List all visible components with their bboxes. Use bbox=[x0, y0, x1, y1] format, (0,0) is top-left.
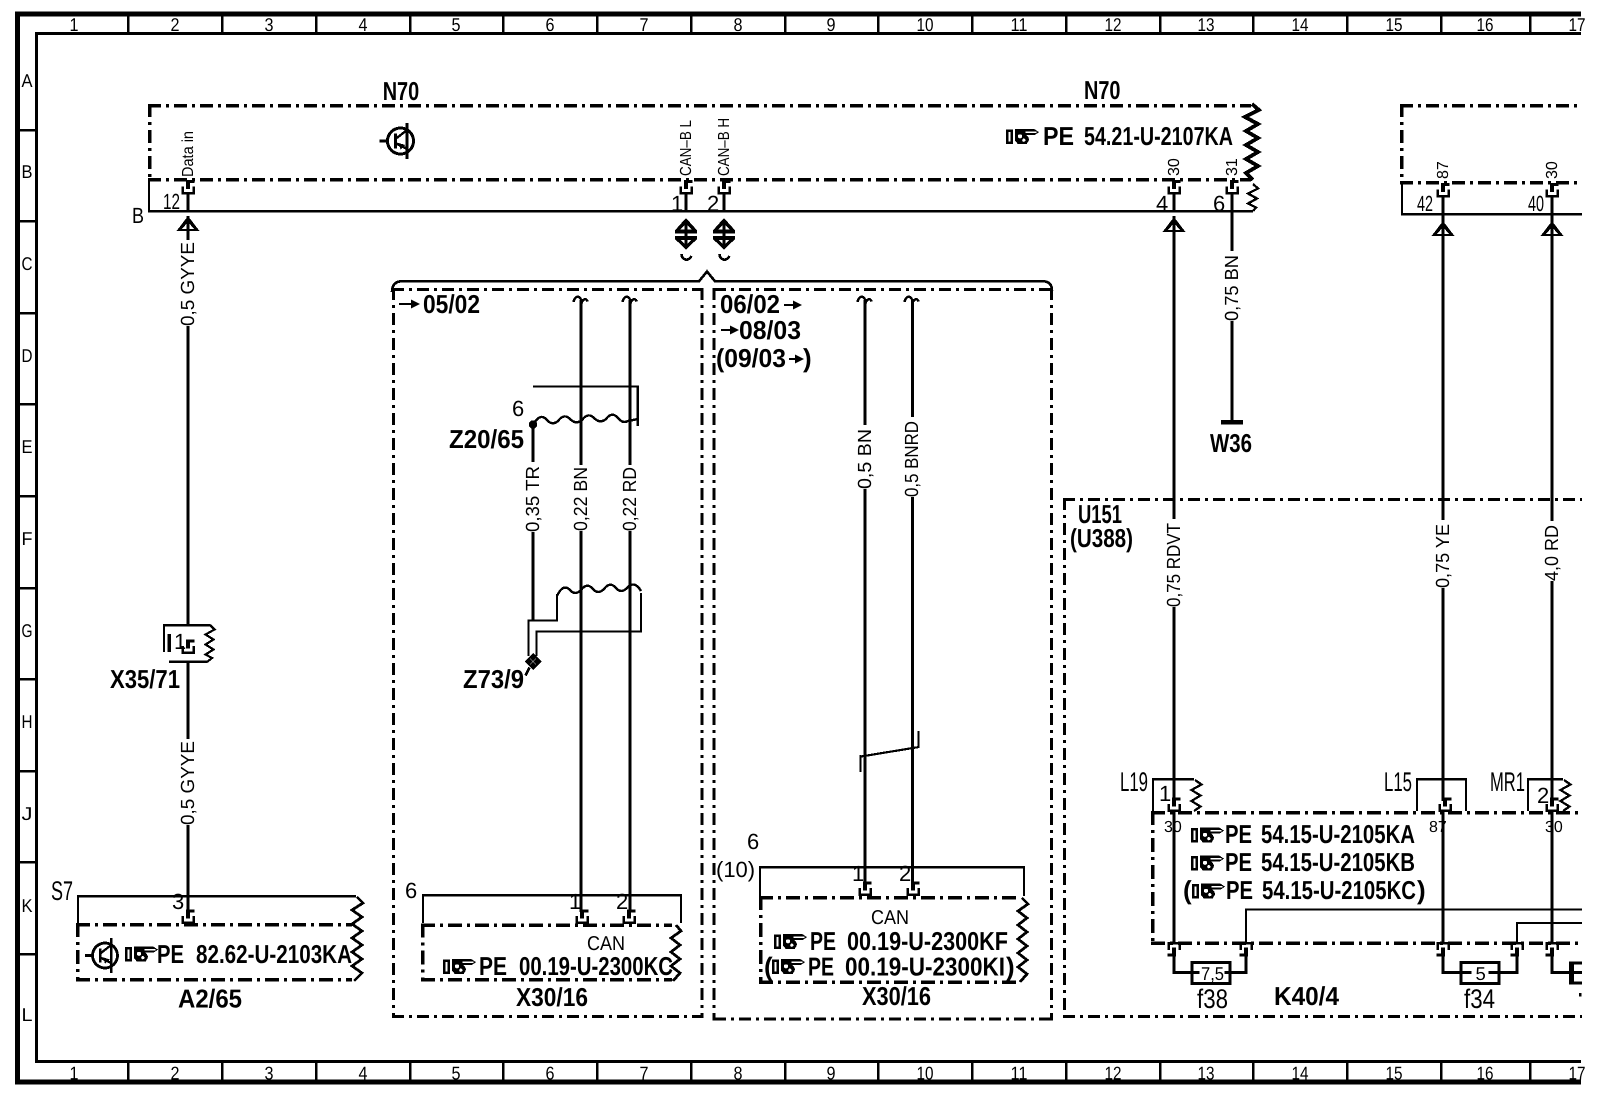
svg-text:8: 8 bbox=[734, 1063, 743, 1084]
svg-text:Data in: Data in bbox=[180, 131, 197, 177]
wire label 0,5 GYYE lower bbox=[178, 739, 199, 825]
svg-text:J: J bbox=[22, 803, 33, 824]
wire L15 through K40/4 bbox=[1442, 811, 1445, 944]
wire pin42 to L15 bbox=[1442, 215, 1445, 801]
svg-text:00.19-U-2300KI: 00.19-U-2300KI bbox=[845, 952, 1005, 982]
svg-text:G: G bbox=[22, 620, 33, 641]
svg-text:Z73/9: Z73/9 bbox=[463, 664, 524, 694]
svg-text:H: H bbox=[22, 711, 33, 732]
svg-text:6: 6 bbox=[512, 396, 524, 421]
fuse at right edge (cut) bbox=[1552, 953, 1582, 985]
control unit N70 box bbox=[148, 104, 1251, 181]
arrow on wire 40 bbox=[1541, 221, 1564, 236]
wire label 0,22 BN bbox=[571, 465, 592, 531]
wire X35/71 to A2/65 bbox=[187, 662, 190, 912]
Z20/65 junction dot bbox=[529, 420, 537, 428]
K40/4 bottom pin f34 right bbox=[1511, 943, 1523, 956]
svg-text:A: A bbox=[22, 70, 34, 91]
N70 right torn edge zigzag bbox=[1245, 104, 1259, 180]
wire label 0,5 GYYE upper bbox=[178, 240, 199, 326]
Z20/65 squiggle bbox=[533, 415, 638, 425]
ground W36 bbox=[1221, 420, 1243, 425]
svg-text:0,5 BNRD: 0,5 BNRD bbox=[902, 421, 923, 497]
svg-text:17: 17 bbox=[1569, 14, 1586, 35]
svg-text:40: 40 bbox=[1528, 191, 1544, 216]
A2/65 dash-dot box bbox=[76, 923, 352, 981]
svg-text:1: 1 bbox=[70, 14, 79, 35]
hand icon N70 bbox=[1006, 129, 1039, 144]
variant box 05/02 bbox=[392, 288, 702, 1018]
connector X35/71 bbox=[164, 625, 210, 662]
svg-text:E: E bbox=[22, 436, 33, 457]
feed line 30 inside K40/4 bbox=[1246, 910, 1582, 944]
A2/65 component outline bbox=[78, 896, 356, 923]
svg-text:6: 6 bbox=[405, 878, 417, 903]
svg-text:4: 4 bbox=[1156, 191, 1168, 216]
svg-text:2: 2 bbox=[899, 861, 911, 886]
svg-text:S7: S7 bbox=[51, 876, 73, 906]
svg-text:A2/65: A2/65 bbox=[178, 984, 242, 1014]
svg-text:82.62-U-2103KA: 82.62-U-2103KA bbox=[196, 939, 352, 969]
svg-text:N70: N70 bbox=[383, 76, 420, 106]
bus line B bbox=[148, 210, 1253, 213]
svg-text:K40/4: K40/4 bbox=[1274, 981, 1339, 1011]
05/02 arrow label bbox=[399, 303, 412, 305]
wire BNRD in 06/02 bbox=[905, 297, 919, 304]
left ruler column bbox=[20, 130, 36, 954]
svg-text:54.21-U-2107KA: 54.21-U-2107KA bbox=[1084, 121, 1233, 151]
right control unit box (cut) bbox=[1400, 104, 1582, 184]
svg-text:12: 12 bbox=[1105, 1063, 1122, 1084]
svg-text:7: 7 bbox=[640, 1063, 649, 1084]
svg-text:PE: PE bbox=[1043, 121, 1074, 151]
svg-text:9: 9 bbox=[827, 1063, 836, 1084]
svg-text:3: 3 bbox=[265, 1063, 274, 1084]
svg-text:4,0 RD: 4,0 RD bbox=[1542, 525, 1563, 581]
L15 pin label 87 bbox=[1427, 819, 1447, 836]
svg-text:0,35 TR: 0,35 TR bbox=[523, 466, 544, 532]
svg-text:14: 14 bbox=[1292, 1063, 1309, 1084]
svg-text:0,5 GYYE: 0,5 GYYE bbox=[178, 242, 199, 326]
svg-text:30: 30 bbox=[1545, 819, 1563, 836]
twisted pair marker bbox=[861, 731, 920, 772]
svg-text:1: 1 bbox=[569, 889, 581, 914]
L19 pin label 30 bbox=[1162, 819, 1182, 836]
arrow on wire 42 bbox=[1432, 221, 1455, 236]
svg-text:3: 3 bbox=[265, 14, 274, 35]
pin 42 of right box bbox=[1438, 183, 1450, 196]
svg-text:X30/16: X30/16 bbox=[862, 981, 931, 1011]
wire RD in 05/02 bbox=[623, 297, 637, 304]
svg-text:(09/03: (09/03 bbox=[716, 343, 786, 373]
X30/16 right connector outline bbox=[760, 867, 1024, 896]
feed line 2 inside K40/4 bbox=[1517, 923, 1582, 943]
svg-text:): ) bbox=[803, 343, 812, 373]
svg-text:1: 1 bbox=[174, 629, 186, 654]
fuse f34 bbox=[1443, 953, 1517, 984]
svg-text:3: 3 bbox=[172, 889, 184, 914]
svg-text:PE: PE bbox=[1225, 847, 1252, 877]
svg-text:B: B bbox=[132, 203, 144, 228]
hand icon X30/16 right row1 bbox=[774, 934, 807, 949]
08/03 arrow label bbox=[721, 329, 731, 331]
svg-text:5: 5 bbox=[452, 14, 461, 35]
svg-text:42: 42 bbox=[1417, 191, 1433, 216]
A2/65 torn right edge bbox=[352, 897, 363, 981]
wire BN in 05/02 bbox=[574, 297, 588, 304]
svg-text:L15: L15 bbox=[1384, 767, 1412, 797]
wire label 0,5 BNRD bbox=[902, 417, 923, 497]
Z20/65 resistor bracket bbox=[533, 387, 638, 427]
svg-text:12: 12 bbox=[163, 189, 180, 214]
svg-text:6: 6 bbox=[546, 1063, 555, 1084]
svg-text:08/03: 08/03 bbox=[739, 315, 801, 345]
wire label 0,75 YE bbox=[1433, 520, 1454, 588]
pin 1 of N70 bbox=[681, 180, 693, 193]
fuse box K40/4 dash-dot bbox=[1151, 811, 1582, 945]
svg-text:(10): (10) bbox=[716, 857, 755, 882]
svg-text:14: 14 bbox=[1292, 14, 1309, 35]
svg-text:16: 16 bbox=[1477, 14, 1494, 35]
X30/16 left dash-dot box bbox=[421, 924, 672, 982]
svg-text:2: 2 bbox=[616, 889, 628, 914]
svg-text:05/02: 05/02 bbox=[423, 289, 480, 319]
svg-text:54.15-U-2105KB: 54.15-U-2105KB bbox=[1261, 847, 1415, 877]
svg-text:L19: L19 bbox=[1120, 767, 1148, 797]
svg-text:(: ( bbox=[1183, 875, 1192, 905]
svg-text:): ) bbox=[1006, 952, 1015, 982]
pin 40 of right box bbox=[1547, 183, 1559, 196]
svg-text:9: 9 bbox=[827, 14, 836, 35]
svg-text:C: C bbox=[22, 253, 33, 274]
svg-text:Z20/65: Z20/65 bbox=[449, 424, 524, 454]
svg-text:7,5: 7,5 bbox=[1201, 963, 1224, 984]
K40/4 bottom pin f34 left bbox=[1437, 943, 1449, 956]
X30/16 right torn edge bbox=[1018, 898, 1028, 982]
svg-text:0,22 RD: 0,22 RD bbox=[620, 467, 641, 531]
svg-text:2: 2 bbox=[171, 1063, 180, 1084]
svg-text:00.19-U-2300KC: 00.19-U-2300KC bbox=[519, 951, 673, 981]
svg-text:6: 6 bbox=[546, 14, 555, 35]
svg-text:12: 12 bbox=[1105, 14, 1122, 35]
Z73/9 splice diamond bbox=[525, 653, 542, 676]
arrow on wire from pin 4 bbox=[1163, 217, 1186, 232]
svg-text:31: 31 bbox=[1224, 158, 1241, 176]
CAN-B L double arrow bbox=[675, 218, 697, 260]
svg-text:1: 1 bbox=[852, 861, 864, 886]
right bus left stub bbox=[1401, 184, 1403, 215]
wire label 0,22 RD bbox=[620, 465, 641, 531]
svg-text:K: K bbox=[22, 895, 34, 916]
svg-text:6: 6 bbox=[747, 829, 759, 854]
bus left stub bbox=[148, 181, 150, 212]
wire TR down from Z20/65 bbox=[532, 424, 535, 621]
svg-text:1: 1 bbox=[70, 1063, 79, 1084]
svg-text:1: 1 bbox=[1159, 781, 1171, 806]
svg-text:87: 87 bbox=[1435, 161, 1452, 179]
svg-text:MR1: MR1 bbox=[1490, 767, 1525, 797]
svg-text:30: 30 bbox=[1166, 158, 1183, 176]
svg-text:2: 2 bbox=[171, 14, 180, 35]
bottom ruler row bbox=[128, 1062, 1530, 1080]
svg-text:13: 13 bbox=[1198, 1063, 1215, 1084]
K40/4 bottom pin fuse3 bbox=[1546, 943, 1558, 956]
svg-text:15: 15 bbox=[1386, 14, 1403, 35]
svg-text:17: 17 bbox=[1569, 1063, 1586, 1084]
svg-text:11: 11 bbox=[1011, 1063, 1028, 1084]
right box bus line bbox=[1401, 213, 1582, 216]
svg-text:13: 13 bbox=[1198, 14, 1215, 35]
solid cap line over variant boxes with break caret bbox=[392, 272, 1052, 293]
wire pin40 to MR1 bbox=[1551, 215, 1554, 801]
wire label 0,75 RDVT bbox=[1164, 519, 1185, 607]
svg-text:5: 5 bbox=[1476, 963, 1486, 984]
MR1 pin label 30 bbox=[1543, 819, 1563, 836]
svg-text:7: 7 bbox=[640, 14, 649, 35]
svg-text:6: 6 bbox=[1213, 191, 1225, 216]
svg-text:8: 8 bbox=[734, 14, 743, 35]
wire L19 through K40/4 bbox=[1173, 811, 1176, 944]
wire label 0,35 TR bbox=[523, 462, 544, 532]
K40/4 bottom pin f38 left bbox=[1168, 943, 1180, 956]
svg-text:54.15-U-2105KC: 54.15-U-2105KC bbox=[1262, 875, 1416, 905]
svg-text:30: 30 bbox=[1544, 161, 1561, 179]
hand icon K40/4 row1 bbox=[1191, 828, 1224, 843]
X30/16 left connector outline bbox=[423, 895, 681, 923]
svg-text:f34: f34 bbox=[1464, 984, 1495, 1014]
wire label 0,75 BN bbox=[1222, 251, 1243, 321]
svg-text:4: 4 bbox=[359, 1063, 368, 1084]
svg-text:0,22 BN: 0,22 BN bbox=[571, 467, 592, 531]
fuse f38 bbox=[1174, 953, 1246, 984]
hand icon A2/65 bbox=[125, 947, 158, 962]
svg-text:10: 10 bbox=[917, 1063, 934, 1084]
svg-text:PE: PE bbox=[1225, 819, 1252, 849]
svg-text:B: B bbox=[22, 161, 33, 182]
svg-text:0,5 GYYE: 0,5 GYYE bbox=[178, 741, 199, 825]
svg-text:54.15-U-2105KA: 54.15-U-2105KA bbox=[1261, 819, 1415, 849]
pin 6 of N70 bbox=[1227, 180, 1239, 193]
wire pin6 to W36 bbox=[1231, 214, 1234, 421]
svg-text:PE: PE bbox=[479, 951, 507, 981]
arrow on wire from pin 12 bbox=[177, 216, 200, 231]
svg-text:(: ( bbox=[764, 952, 773, 982]
svg-text:2: 2 bbox=[707, 191, 719, 216]
svg-text:0,75 BN: 0,75 BN bbox=[1222, 255, 1243, 321]
K40/4 bottom pin f38 right bbox=[1240, 943, 1252, 956]
svg-text:L: L bbox=[22, 1004, 33, 1025]
bottom ruler numbers bbox=[70, 1063, 1586, 1084]
svg-text:16: 16 bbox=[1477, 1063, 1494, 1084]
svg-text:f38: f38 bbox=[1197, 984, 1228, 1014]
wire label 0,5 BN bbox=[855, 425, 876, 489]
svg-text:5: 5 bbox=[452, 1063, 461, 1084]
wire MR1 through K40/4 bbox=[1551, 811, 1554, 944]
svg-text:10: 10 bbox=[917, 14, 934, 35]
svg-text:X30/16: X30/16 bbox=[516, 982, 588, 1012]
svg-text:11: 11 bbox=[1011, 14, 1028, 35]
pin 4 of N70 bbox=[1169, 180, 1181, 193]
hand icon K40/4 row2 bbox=[1191, 856, 1224, 871]
wire pin4 to L19 bbox=[1173, 216, 1176, 801]
pin 2 of N70 bbox=[719, 180, 731, 193]
left ruler letters bbox=[22, 70, 34, 1025]
svg-text:CAN–B L: CAN–B L bbox=[678, 120, 695, 176]
svg-text:PE: PE bbox=[808, 952, 834, 982]
svg-text:): ) bbox=[1417, 875, 1426, 905]
svg-text:0,5 BN: 0,5 BN bbox=[855, 429, 876, 489]
hand icon X30/16 left bbox=[443, 959, 476, 974]
Z73/9 twisted pair squiggle bbox=[557, 585, 641, 597]
transistor symbol in N70 bbox=[380, 123, 414, 159]
CAN-B H double arrow bbox=[713, 218, 735, 260]
optional equipment box U151 bbox=[1063, 498, 1582, 1018]
svg-text:PE: PE bbox=[1226, 875, 1253, 905]
svg-text:1: 1 bbox=[671, 191, 683, 216]
svg-text:D: D bbox=[22, 345, 33, 366]
N70 torn edge continuation to bus bbox=[1248, 184, 1258, 211]
X30/16 left torn right edge bbox=[671, 925, 681, 981]
top ruler numbers bbox=[70, 14, 1586, 35]
transistor symbol in A2/65 bbox=[85, 938, 118, 973]
svg-text:0,75 RDVT: 0,75 RDVT bbox=[1164, 523, 1185, 607]
wire label 4,0 RD bbox=[1542, 521, 1563, 581]
Z73/9 wiring steps bbox=[529, 593, 642, 656]
X30/16 right dash-dot box bbox=[759, 896, 1019, 984]
svg-text:W36: W36 bbox=[1210, 428, 1252, 458]
svg-text:PE: PE bbox=[157, 939, 184, 969]
svg-text:X35/71: X35/71 bbox=[110, 664, 180, 694]
wire pin12 to X35/71 bbox=[187, 216, 190, 625]
svg-text:(U388): (U388) bbox=[1070, 523, 1133, 553]
variant box 06/02 bbox=[714, 288, 1052, 1021]
top ruler row bbox=[128, 16, 1530, 33]
svg-text:0,75 YE: 0,75 YE bbox=[1433, 524, 1454, 588]
svg-text:4: 4 bbox=[359, 14, 368, 35]
svg-text:N70: N70 bbox=[1084, 75, 1121, 105]
svg-text:CAN–B H: CAN–B H bbox=[716, 118, 733, 176]
pin 12 of N70 bbox=[183, 180, 195, 193]
svg-text:F: F bbox=[22, 528, 33, 549]
svg-text:15: 15 bbox=[1386, 1063, 1403, 1084]
wire BN in 06/02 bbox=[858, 297, 872, 304]
